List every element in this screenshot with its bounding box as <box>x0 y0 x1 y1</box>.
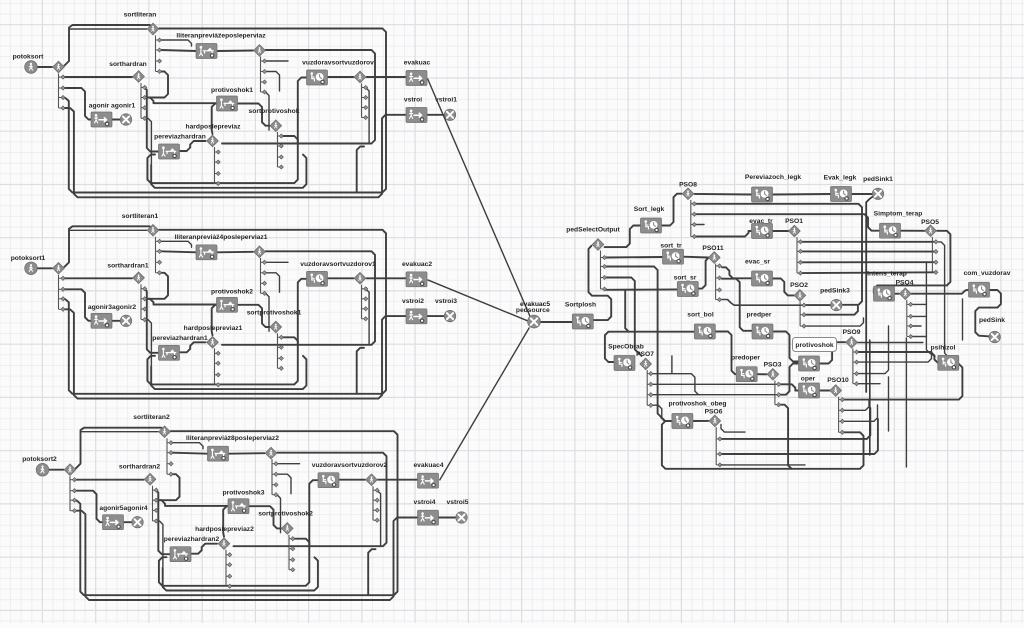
wire pedsource to Sortplosh <box>541 321 573 323</box>
selectOutput PSO1 <box>789 225 801 237</box>
wire riser on loop3 <box>357 348 364 394</box>
selectOutput sorthardran <box>133 71 145 83</box>
wire sortliteran2 port4 down to sorthardran2 port2 <box>160 474 180 500</box>
wire pereviazhardran1 out to hardposlepreviaz1 <box>180 342 206 352</box>
wire posleperviaz2 port wires <box>277 463 300 465</box>
wire sorthardran port1 to pereviazhardran <box>144 87 158 151</box>
wire PSO7 port1 Z-connector down to port3 row <box>652 374 698 395</box>
wire PSO6 out down segment <box>721 424 745 432</box>
service sort_sr <box>677 282 698 297</box>
ports of potoksort2 select <box>70 476 77 513</box>
wire predoper to PSO3 <box>757 373 767 375</box>
wire PSO10 port4 big bottom loop to protivoshok_obeg <box>662 421 864 469</box>
selectOutput PSO7 <box>640 358 652 370</box>
service Evak_legk <box>831 187 852 202</box>
select diamond at potoksort <box>53 61 65 73</box>
selectOutput PSO6 <box>709 415 721 427</box>
svg-text:vstroi5: vstroi5 <box>447 499 469 506</box>
goto block evakuac <box>406 71 427 86</box>
wire sortliteran port2 to lliteranpreviaz <box>161 50 196 51</box>
selectOutput sortvuzdorov2 <box>366 474 378 486</box>
svg-text:sortprotivoshok2: sortprotivoshok2 <box>258 511 313 518</box>
wire PSO8 port2 to Simptom_terap <box>696 214 880 231</box>
wire PSO2 port1 to pedSink3 <box>806 304 830 306</box>
svg-text:vstroi4: vstroi4 <box>414 499 436 506</box>
service lliteranpreviaz <box>196 44 217 59</box>
wire riser from port1 row up <box>671 356 673 373</box>
wire potoksort port1 to sorthardran <box>65 76 133 78</box>
wire potoksort source to select <box>38 66 53 68</box>
wire sort_tr to PSO11 <box>683 256 708 259</box>
svg-text:potoksort: potoksort <box>13 54 45 61</box>
selectOutput sortvuzdorov1 <box>354 273 366 285</box>
service protivoshok <box>799 356 820 371</box>
svg-text:vstroi: vstroi <box>404 97 422 104</box>
wire sort_bol to predoper <box>715 332 736 375</box>
ports of PSO3 <box>775 381 781 407</box>
svg-text:evakuac4: evakuac4 <box>413 462 443 469</box>
svg-text:sort_tr: sort_tr <box>660 243 682 250</box>
wire evac_sr to PSO2 <box>772 279 794 296</box>
wire PSO4 port3 stub <box>912 325 921 327</box>
ports of PSO7 <box>647 370 653 407</box>
wire PSO6 port1 long right <box>721 408 870 439</box>
wire PSO8 port3 stub <box>696 224 705 226</box>
svg-text:PSO7: PSO7 <box>636 351 654 358</box>
service Sort_legk <box>641 218 662 233</box>
wire sorthardran2 port1 to pereviazhardran2 <box>156 490 170 554</box>
svg-text:PSO1: PSO1 <box>785 218 803 225</box>
wire vstroi2 to sink <box>427 315 444 317</box>
ports of PSO11 <box>716 264 722 302</box>
wire sortvuzdorov2 port1 down <box>377 490 381 546</box>
goto block agonir5 <box>103 515 124 530</box>
svg-text:protivoshok: protivoshok <box>795 342 834 349</box>
svg-text:vstroi3: vstroi3 <box>435 298 457 305</box>
ports of PSO6 <box>716 427 722 467</box>
svg-text:sortliteran: sortliteran <box>124 12 157 19</box>
selectOutput posleperviaz <box>254 45 266 57</box>
service Sortplosh <box>572 314 593 329</box>
svg-text:evakuac2: evakuac2 <box>402 261 432 268</box>
wire sortliteran1 port2 to lliteranpreviaz1 <box>161 251 196 252</box>
svg-text:Sortplosh: Sortplosh <box>565 302 596 309</box>
wire Sort_legk to PSO8 <box>661 194 681 226</box>
wire predper out right <box>773 332 799 362</box>
wire heavy vertical bus x866 up into pedSink1 <box>866 197 872 392</box>
selectOutput sortliteran2 <box>159 426 171 438</box>
svg-text:hardposlepreviaz1: hardposlepreviaz1 <box>184 325 243 332</box>
wire diagonal evakuac to pedsource <box>428 79 531 318</box>
wire protivoshok block to PSO9 <box>819 342 845 363</box>
svg-text:PSO2: PSO2 <box>790 282 808 289</box>
svg-text:PSO9: PSO9 <box>843 329 861 336</box>
wire com_vuzdorav to pedSink <box>975 290 1001 336</box>
svg-text:hardposlepreviaz: hardposlepreviaz <box>185 124 241 131</box>
wire PSO8 port4 to evac_tr <box>696 231 752 237</box>
svg-text:predoper: predoper <box>731 355 760 362</box>
svg-text:pedSink1: pedSink1 <box>863 176 893 183</box>
selectOutput PSO8 <box>682 188 694 200</box>
selectOutput PSO10 <box>830 385 842 397</box>
selectOutput sortliteran1 <box>147 225 159 237</box>
svg-text:sorthardran: sorthardran <box>109 61 147 68</box>
svg-text:Simptom_terap: Simptom_terap <box>874 211 923 218</box>
wire PSO3 port3 down to bottom loop <box>780 405 792 469</box>
wire PSO8 port1 long to pedSink3 <box>696 204 863 305</box>
wire heavy vertical bus x870 <box>869 340 871 455</box>
svg-text:pereviazhardran2: pereviazhardran2 <box>164 536 220 543</box>
wire into protivoshok3 from hardposlepreviaz2 top <box>223 506 228 537</box>
wire diagonal evakuac4 to pedsource <box>440 328 530 481</box>
goto block vstroi2 <box>406 309 427 324</box>
svg-text:sorthardran1: sorthardran1 <box>107 262 149 269</box>
selectOutput PSO5 <box>925 225 937 237</box>
wire sortvuzdorov port1 down <box>366 88 370 144</box>
wire loop4 vstroi back to potoksort port4 <box>65 108 406 197</box>
goto block vstroi <box>406 108 427 123</box>
sink of agonir5 <box>132 517 143 528</box>
wire select up to sortliteran1 <box>65 226 154 266</box>
goto block agonir3 <box>91 313 112 328</box>
service predper <box>752 324 773 339</box>
wire sortprotivoshok port1 into riser <box>281 136 298 144</box>
selectOutput sortprotivoshok2 <box>282 523 294 535</box>
sink pedSink1 <box>872 188 883 199</box>
svg-text:SpecObrab: SpecObrab <box>608 344 644 351</box>
wire lliteranpreviaz2 out to posleperviaz2 <box>229 452 265 455</box>
svg-text:pedSink: pedSink <box>979 317 1005 324</box>
wire sort_sr out rises into PSO11 <box>698 258 708 289</box>
service Simptom_terap <box>880 223 901 238</box>
wire select up to sortliteran <box>65 25 154 66</box>
wire into protivoshok1 from hardposlepreviaz top <box>212 104 217 135</box>
wire lliteranpreviaz out to posleperviaz <box>217 50 253 53</box>
svg-text:protivoshok2: protivoshok2 <box>211 288 253 295</box>
wire sortliteran1 port4 down to sorthardran1 port2 <box>148 273 168 299</box>
svg-text:evakuac: evakuac <box>404 60 431 67</box>
wire loop1 pereviazhardran area to vuzdorav input <box>147 78 306 184</box>
ports of sortliteran <box>156 36 162 74</box>
svg-text:Sort_legk: Sort_legk <box>634 206 665 213</box>
sink vstroi3 <box>444 310 455 321</box>
sink pedSink3 <box>831 299 842 310</box>
service psihizol <box>938 355 959 370</box>
wire diagonal evakuac2 to pedsource <box>428 280 528 321</box>
wire PSO6 port2 long right <box>721 419 878 454</box>
wire Simptom_terap to PSO5 <box>900 230 924 232</box>
wire sortliteran2 port2 to lliteranpreviaz2 <box>173 453 208 454</box>
service protivoshok3 <box>228 499 249 514</box>
ports of potoksort select <box>59 74 66 111</box>
wire horizontal into psihizol descender <box>852 342 923 344</box>
wire PSO4 port2 stub to descender <box>912 315 926 317</box>
svg-text:vuzdoravsortvuzdorov1: vuzdoravsortvuzdorov1 <box>300 261 376 268</box>
wire PSO2 port2 long right <box>806 307 858 315</box>
selectOutput PSO2 <box>794 290 806 302</box>
service protivoshok_obeg <box>672 414 693 429</box>
wire posleperviaz1 port wires <box>266 261 289 263</box>
wire protivoshok2 out to sortprotivoshok1 <box>237 305 270 327</box>
ports of posleperviaz1 <box>261 258 267 296</box>
service Intens_terap <box>874 286 895 301</box>
source potoksort2 <box>36 463 49 476</box>
svg-text:Intens_terap: Intens_terap <box>867 271 907 278</box>
wire Pereviazoch_legk to Evak_legk <box>773 193 831 196</box>
wire into protivoshok2 from hardposlepreviaz1 top <box>212 305 217 336</box>
wire trunk sortliteran2 out right, down and back to potoksort2 port3 <box>76 431 398 595</box>
svg-text:evac_sr: evac_sr <box>745 259 770 266</box>
wire potoksort2 source to select <box>49 469 64 471</box>
goto block evakuac2 <box>406 272 427 287</box>
svg-text:pereviazhardran1: pereviazhardran1 <box>152 335 208 342</box>
wire PSO3 port2 to protivoshok block <box>780 364 799 395</box>
ports of PSO10 <box>839 397 845 435</box>
wire PSO4 column down to bottom loop <box>905 338 907 467</box>
service oper <box>799 383 820 398</box>
wire tee down from port4 line to sort_bol line <box>625 291 629 332</box>
wire PSO11 port1 to evac_sr <box>722 267 751 278</box>
selectOutput PSO4 <box>900 288 912 300</box>
service vuzdorav2 <box>318 473 339 488</box>
selectOutput sortvuzdorov <box>354 71 366 83</box>
svg-text:PSO10: PSO10 <box>827 377 849 384</box>
svg-text:PSO6: PSO6 <box>705 409 723 416</box>
ports of sortvuzdorov2 <box>373 486 379 522</box>
selectOutput sorthardran2 <box>144 473 156 485</box>
sink vstroi5 <box>456 512 467 523</box>
svg-text:potoksort1: potoksort1 <box>11 255 46 262</box>
ports of pedSelectOutput <box>601 251 607 292</box>
svg-text:pedsource: pedsource <box>516 307 550 314</box>
ports of sortliteran1 <box>156 237 162 275</box>
svg-text:psihizol: psihizol <box>931 345 956 352</box>
source potoksort <box>25 61 38 74</box>
svg-text:vstroi2: vstroi2 <box>402 298 424 305</box>
wire PSO3 port1 to oper <box>780 384 799 390</box>
wire posleperviaz2 out to right trunk down to y143 <box>234 453 387 547</box>
selectOutput sortprotivoshok <box>270 120 282 132</box>
wire protivoshok3 out to sortprotivoshok2 <box>249 506 282 528</box>
selectOutput hardposlepreviaz2 <box>218 538 230 550</box>
svg-text:pereviazhardran: pereviazhardran <box>154 134 206 141</box>
service pereviazhardran <box>159 144 180 159</box>
ports of sortprotivoshok2 <box>289 535 295 572</box>
service lliteranpreviaz2 <box>208 446 229 461</box>
svg-text:hardposlepreviaz2: hardposlepreviaz2 <box>195 526 254 533</box>
wire PSO1 port lines to PSO5 ports <box>802 241 934 243</box>
source potoksort1 <box>25 262 38 275</box>
ports of hardposlepreviaz2 <box>226 550 232 589</box>
ports of hardposlepreviaz <box>215 147 221 186</box>
wire sorthardran port4 down <box>144 118 151 164</box>
selectOutput sortprotivoshok1 <box>270 321 282 333</box>
sink of agonir3 <box>120 315 131 326</box>
svg-text:sortprotivoshok1: sortprotivoshok1 <box>247 309 302 316</box>
wire vstroi to sink <box>427 114 444 116</box>
wire posleperviaz port wires <box>266 60 289 62</box>
wire riser on loop3 <box>357 147 364 193</box>
wire posleperviaz out to right trunk down to y143 <box>222 50 375 144</box>
wire vuzdorav2 out to sortvuzdorov2 <box>339 479 366 481</box>
wire loop1 pereviazhardran2 area to vuzdorav2 input <box>159 480 318 586</box>
wire lliteranpreviaz1 out to posleperviaz1 <box>217 251 253 254</box>
wire PSO9 port3 riser <box>858 326 888 374</box>
service SpecObrab <box>614 356 635 371</box>
svg-text:PSO11: PSO11 <box>702 245 723 252</box>
svg-text:agonir3agonir2: agonir3agonir2 <box>88 304 137 311</box>
sink pedSink <box>989 331 1000 342</box>
service predoper <box>736 367 757 382</box>
wire potoksort port2 to agonir <box>65 88 92 120</box>
wire evac_tr to PSO1 <box>772 230 788 232</box>
ports of sortvuzdorov <box>362 84 368 120</box>
wire select up to sortliteran2 <box>76 428 165 469</box>
wire sortvuzdorov to evakuac <box>367 76 407 78</box>
service vuzdorav1 <box>307 271 328 286</box>
service sort_tr <box>663 249 684 264</box>
svg-text:Pereviazoch_legk: Pereviazoch_legk <box>745 174 801 181</box>
wire trunk sortliteran out right, down and back to potoksort port3 <box>65 29 387 193</box>
wire sortvuzdorov2 to evakuac4 <box>378 479 418 481</box>
wire loop2 inner <box>151 356 306 389</box>
wire loop4 vstroi4 back to potoksort2 port4 <box>77 511 418 600</box>
svg-text:PSO4: PSO4 <box>896 280 914 287</box>
wire pedSelectOutput port3 descender <box>606 278 642 356</box>
svg-text:protivoshok_obeg: protivoshok_obeg <box>669 401 727 408</box>
service pereviazhardran1 <box>159 345 180 360</box>
ports of sortliteran2 <box>167 438 173 476</box>
service evac_tr <box>752 224 773 239</box>
wire pedSelectOutput out right up to Sort_legk <box>605 226 641 248</box>
service pereviazhardran2 <box>170 547 191 562</box>
wire sorthardran1 port4 down <box>144 320 151 366</box>
select diamond at potoksort1 <box>53 263 65 275</box>
svg-text:com_vuzdorav: com_vuzdorav <box>964 270 1011 277</box>
wire sort_bol line with SpecObrab tail <box>605 332 694 362</box>
wire loop1 pereviazhardran1 area to vuzdorav1 input <box>147 279 306 385</box>
service sort_bol <box>694 324 715 339</box>
wire posleperviaz1 out to right trunk down to y143 <box>222 251 375 344</box>
selectOutput sorthardran1 <box>133 272 145 284</box>
goto block agonir <box>91 112 112 127</box>
ports of sortprotivoshok <box>278 132 284 169</box>
selectOutput posleperviaz2 <box>265 447 277 459</box>
ports of PSO5 <box>932 237 938 275</box>
svg-text:protivoshok1: protivoshok1 <box>211 87 253 94</box>
sink of agonir <box>120 114 131 125</box>
wire PSO11 port2 to predper <box>722 279 752 331</box>
wire descender x926 to psihizol top <box>926 263 935 357</box>
label box protivoshok <box>793 338 837 352</box>
ports of posleperviaz <box>261 57 267 95</box>
svg-text:PSO8: PSO8 <box>679 182 697 189</box>
ports of sortvuzdorov1 <box>362 285 368 321</box>
wire sorthardran2 port2 to protivoshok3 <box>158 500 229 506</box>
selectOutput sortliteran <box>147 23 159 35</box>
wire potoksort1 port1 to sorthardran1 <box>65 277 133 279</box>
ports of sorthardran1 <box>141 284 147 321</box>
ports of PSO4 <box>907 300 913 339</box>
wire PSO9 port1 to psihizol <box>858 352 938 363</box>
service protivoshok1 <box>217 96 238 111</box>
wire oper to PSO10 <box>819 390 830 392</box>
svg-text:sortliteran1: sortliteran1 <box>122 213 159 220</box>
wire PSO8 to Pereviazoch_legk <box>695 193 752 196</box>
service com_vuzdorav <box>969 282 990 297</box>
svg-text:predper: predper <box>747 312 772 319</box>
selectOutput PSO9 <box>846 336 858 348</box>
svg-text:evac_tr: evac_tr <box>749 218 773 225</box>
selectOutput PSO11 <box>709 252 721 264</box>
ports of PSO1 <box>797 237 803 275</box>
wire pedSelectOutput port2 long descender <box>606 267 668 422</box>
wire PSO5 loop down to Intens_terap <box>874 231 951 293</box>
wire vertical near com_vuzdorav down <box>962 299 964 340</box>
ports of sortprotivoshok1 <box>278 333 284 370</box>
wire PSO9 port2 long <box>858 351 931 362</box>
svg-text:pedSink3: pedSink3 <box>820 288 850 295</box>
svg-text:sort_sr: sort_sr <box>674 275 697 282</box>
wire Sortplosh out staircase up to pedSelectOutput <box>589 246 612 320</box>
goto block evakuac4 <box>418 473 439 488</box>
svg-text:protivoshok3: protivoshok3 <box>223 490 265 497</box>
wire PSO10 port wires <box>844 364 963 400</box>
svg-text:oper: oper <box>801 376 816 383</box>
svg-text:lliteranpreviȧz̈4posleperviaz: lliteranpreviȧz̈4posleperviaz1 <box>175 234 268 241</box>
wire vuzdorav out to sortvuzdorov <box>327 76 354 78</box>
wire protivoshok_obeg to PSO6 <box>692 420 708 422</box>
goto block vstroi4 <box>418 510 439 525</box>
wire potoksort1 port2 to agonir3 <box>65 289 92 321</box>
wire sortprotivoshok2 port1 into riser <box>293 539 310 547</box>
svg-text:PSO3: PSO3 <box>764 362 782 369</box>
wire pereviazhardran out to hardposlepreviaz <box>180 141 206 151</box>
selectOutput hardposlepreviaz1 <box>207 336 219 348</box>
wire agonir5 to sink <box>124 521 132 523</box>
wire PSO9 port4 stub <box>858 383 880 385</box>
wire PSO6 port3 line right <box>721 464 805 466</box>
wire loop4 vstroi2 back to potoksort1 port4 <box>65 309 406 398</box>
wire loop2 inner <box>163 557 318 590</box>
wire PSO7 port2 line to PSO3 <box>652 383 778 385</box>
svg-text:potoksort2: potoksort2 <box>22 456 57 463</box>
selectOutput pedSelectOutput <box>592 239 604 251</box>
wire Intens_terap to PSO4 <box>894 293 899 295</box>
wire PSO5 port1 down to psihizol top <box>938 242 947 356</box>
wire vstroi4 to sink <box>439 517 456 519</box>
svg-text:sortprotivoshok: sortprotivoshok <box>249 108 300 115</box>
wire sortvuzdorov1 to evakuac2 <box>367 277 407 279</box>
service lliteranpreviaz1 <box>196 245 217 260</box>
wire PSO7 port3 line to PSO3 <box>652 394 778 396</box>
select diamond at potoksort2 <box>64 464 76 476</box>
ports of potoksort1 select <box>59 275 66 312</box>
wire sorthardran1 port1 to pereviazhardran1 <box>144 289 158 353</box>
selectOutput PSO3 <box>767 369 779 381</box>
wire sorthardran2 port4 down <box>156 521 163 567</box>
wire loop2 inner <box>151 155 306 188</box>
svg-text:lliteranpreviȧz̈8posleperviaz: lliteranpreviȧz̈8posleperviaz2 <box>186 435 279 442</box>
svg-text:pedSelectOutput: pedSelectOutput <box>566 227 620 234</box>
wire potoksort1 source to select <box>38 267 53 269</box>
selectOutput posleperviaz1 <box>254 246 266 258</box>
svg-text:vuzdoravsortvuzdorov: vuzdoravsortvuzdorov <box>302 60 374 67</box>
wire PSO11 port4 long line toward pedSink3 <box>722 300 803 306</box>
wire pedSelectOutput port4 to sort_sr <box>606 288 678 290</box>
selectOutput hardposlepreviaz <box>207 135 219 147</box>
wire pedSelectOutput port1 to sort_tr <box>606 256 663 259</box>
